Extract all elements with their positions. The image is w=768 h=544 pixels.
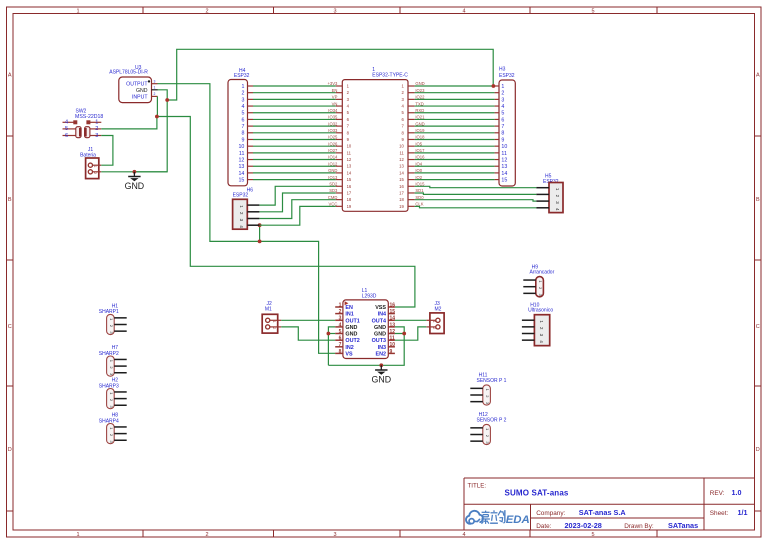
svg-text:CLK: CLK bbox=[415, 202, 423, 207]
svg-text:ASPL78L05-DI-R: ASPL78L05-DI-R bbox=[109, 70, 148, 76]
svg-text:H3: H3 bbox=[499, 67, 506, 73]
svg-text:Date:: Date: bbox=[536, 523, 551, 530]
svg-text:IN3: IN3 bbox=[378, 345, 386, 351]
junction U3 GND bbox=[165, 98, 169, 102]
svg-text:IO33: IO33 bbox=[328, 128, 338, 133]
svg-text:2: 2 bbox=[154, 92, 156, 96]
svg-text:GND: GND bbox=[125, 181, 145, 191]
svg-text:5: 5 bbox=[591, 532, 594, 538]
svg-text:EN2: EN2 bbox=[376, 351, 387, 357]
svg-text:ESP32: ESP32 bbox=[499, 73, 515, 79]
svg-text:A: A bbox=[8, 73, 12, 79]
svg-text:10: 10 bbox=[501, 144, 507, 150]
svg-text:5: 5 bbox=[339, 329, 342, 335]
svg-text:GND: GND bbox=[136, 88, 148, 94]
wire U3 INPUT down to junction bbox=[156, 96, 158, 116]
svg-text:1: 1 bbox=[432, 321, 436, 323]
svg-text:15: 15 bbox=[501, 177, 507, 183]
ground symbol under L293D bbox=[372, 365, 392, 384]
svg-text:IN2: IN2 bbox=[345, 345, 353, 351]
svg-text:14: 14 bbox=[399, 170, 404, 175]
svg-text:D: D bbox=[8, 447, 12, 453]
wire GND rail up over top to H3 pin1 bbox=[167, 49, 493, 100]
connector J3 M2 bbox=[426, 301, 444, 334]
svg-text:15: 15 bbox=[399, 177, 404, 182]
ground symbol near J1 bbox=[125, 172, 145, 191]
svg-text:1: 1 bbox=[76, 532, 79, 538]
junction right GND tie bbox=[402, 332, 406, 336]
svg-text:CMD: CMD bbox=[328, 195, 338, 200]
svg-text:EN: EN bbox=[332, 88, 338, 93]
svg-text:IO32: IO32 bbox=[328, 121, 338, 126]
svg-text:GND: GND bbox=[328, 168, 337, 173]
svg-text:1: 1 bbox=[241, 84, 244, 90]
svg-text:4: 4 bbox=[241, 104, 244, 110]
svg-text:18: 18 bbox=[347, 197, 352, 202]
svg-text:16: 16 bbox=[347, 184, 352, 189]
wire SW2 pin3 to J1 pin1 bbox=[101, 136, 113, 166]
svg-text:3: 3 bbox=[154, 79, 156, 83]
svg-text:OUT3: OUT3 bbox=[372, 338, 386, 344]
wire battery net: junction right, down and across to L293D VSS bbox=[157, 117, 415, 308]
svg-text:Ultrasonico: Ultrasonico bbox=[528, 308, 553, 314]
svg-text:15: 15 bbox=[390, 309, 396, 315]
svg-text:L293D: L293D bbox=[362, 294, 377, 300]
svg-text:12: 12 bbox=[390, 329, 396, 335]
svg-text:M1: M1 bbox=[265, 306, 272, 312]
svg-text:7: 7 bbox=[339, 342, 342, 348]
svg-text:EN: EN bbox=[345, 305, 353, 311]
wire H6 pin4 branch down to 5V net bbox=[259, 225, 261, 241]
svg-text:12: 12 bbox=[238, 157, 244, 163]
svg-text:IO27: IO27 bbox=[328, 148, 338, 153]
svg-text:13: 13 bbox=[399, 164, 404, 169]
svg-text:+3V3: +3V3 bbox=[327, 81, 338, 86]
svg-text:REV:: REV: bbox=[710, 490, 725, 497]
svg-text:1: 1 bbox=[339, 302, 342, 308]
junction 5V net tap bbox=[258, 240, 262, 244]
svg-text:5: 5 bbox=[241, 111, 244, 117]
wires ESP32 SD1/SD0/CLK + IO15 staircase to H5 bbox=[415, 186, 537, 187]
svg-text:2: 2 bbox=[93, 172, 97, 174]
svg-text:1.0: 1.0 bbox=[732, 488, 742, 497]
svg-text:M2: M2 bbox=[435, 306, 442, 312]
wire J3 pin2 to OUT3 bbox=[395, 327, 426, 340]
svg-text:3: 3 bbox=[501, 97, 504, 103]
svg-text:VSS: VSS bbox=[375, 305, 386, 311]
header H9 Arrancador bbox=[523, 264, 554, 297]
ESP32 module left pins 1-19 bbox=[327, 81, 351, 209]
wire J1 pin2 to GND net bbox=[101, 171, 167, 173]
header H11 SENSOR P 1 bbox=[470, 373, 506, 406]
svg-text:D: D bbox=[756, 447, 760, 453]
svg-text:4: 4 bbox=[501, 104, 504, 110]
svg-text:14: 14 bbox=[347, 170, 352, 175]
svg-text:2: 2 bbox=[95, 126, 98, 132]
junction H6 pin4 bbox=[258, 223, 262, 227]
svg-text:VN: VN bbox=[332, 101, 338, 106]
svg-text:13: 13 bbox=[347, 164, 352, 169]
wire GND junction down to J1/GND symbol bbox=[134, 100, 167, 172]
svg-text:13: 13 bbox=[501, 164, 507, 170]
svg-text:1/1: 1/1 bbox=[738, 508, 748, 517]
svg-text:IN4: IN4 bbox=[378, 312, 386, 318]
voltage regulator U3 ASPL78L05-DI-R bbox=[109, 65, 157, 103]
svg-text:12: 12 bbox=[399, 157, 404, 162]
header H1 SHARP1 bbox=[99, 304, 127, 335]
svg-text:GND: GND bbox=[374, 325, 386, 331]
svg-text:VP: VP bbox=[332, 95, 338, 100]
svg-text:14: 14 bbox=[390, 316, 396, 322]
svg-text:17: 17 bbox=[347, 190, 352, 195]
svg-text:9: 9 bbox=[241, 137, 244, 143]
svg-text:SD0: SD0 bbox=[415, 195, 424, 200]
svg-text:19: 19 bbox=[399, 204, 404, 209]
svg-text:SATanas: SATanas bbox=[668, 521, 698, 530]
svg-text:1: 1 bbox=[154, 85, 156, 89]
svg-text:5: 5 bbox=[501, 111, 504, 117]
svg-text:4: 4 bbox=[339, 322, 342, 328]
header H12 SENSOR P 2 bbox=[470, 412, 506, 445]
IC L1 L293D motor driver bbox=[343, 288, 388, 358]
svg-text:1: 1 bbox=[93, 165, 97, 167]
svg-text:16: 16 bbox=[390, 302, 396, 308]
svg-text:ESP32: ESP32 bbox=[233, 193, 249, 199]
svg-text:11: 11 bbox=[239, 151, 245, 157]
svg-text:6: 6 bbox=[501, 117, 504, 123]
wire H6 pin4 staircase to ESP32 VCC bbox=[260, 206, 336, 225]
svg-text:B: B bbox=[8, 197, 12, 203]
svg-text:11: 11 bbox=[399, 150, 404, 155]
connector J2 M1 bbox=[262, 301, 281, 333]
svg-text:Company:: Company: bbox=[536, 510, 565, 517]
svg-text:6: 6 bbox=[65, 133, 68, 139]
svg-text:IO35: IO35 bbox=[328, 115, 338, 120]
L293D left pins 1-8 bbox=[335, 302, 360, 357]
svg-text:10: 10 bbox=[347, 144, 352, 149]
wire U3 OUTPUT 5V net to L293D VS bbox=[158, 84, 336, 354]
svg-text:IO12: IO12 bbox=[328, 161, 338, 166]
svg-text:5: 5 bbox=[65, 126, 68, 132]
svg-text:10: 10 bbox=[399, 144, 404, 149]
header H7 SHARP2 bbox=[99, 345, 127, 376]
svg-text:14: 14 bbox=[238, 171, 244, 177]
svg-text:SENSOR P 1: SENSOR P 1 bbox=[477, 378, 507, 384]
junction H3 pin1 / GND rail bbox=[492, 84, 496, 88]
header H6 ESP32 (4-pin left) bbox=[233, 187, 260, 229]
svg-text:C: C bbox=[8, 324, 12, 330]
ESP32 module right pins 1-19 bbox=[399, 81, 425, 209]
svg-text:2: 2 bbox=[205, 532, 208, 538]
svg-text:A: A bbox=[756, 73, 760, 79]
svg-text:IO26: IO26 bbox=[328, 141, 338, 146]
junction GND symbol tap bbox=[133, 170, 137, 174]
svg-text:3: 3 bbox=[339, 316, 342, 322]
svg-text:OUT2: OUT2 bbox=[345, 338, 359, 344]
switch SW2 MSS-22D18 bbox=[63, 109, 104, 139]
svg-text:9: 9 bbox=[501, 137, 504, 143]
svg-text:2: 2 bbox=[432, 327, 436, 329]
svg-text:8: 8 bbox=[241, 131, 244, 137]
wire L293D right GND pin13 jog bbox=[395, 327, 404, 334]
svg-text:GND: GND bbox=[372, 375, 392, 385]
svg-text:1: 1 bbox=[272, 321, 276, 323]
svg-text:3: 3 bbox=[333, 8, 336, 14]
junction battery input bbox=[155, 115, 159, 119]
svg-text:4: 4 bbox=[462, 8, 465, 14]
wires ESP32 right pins 1-15 to H3 bbox=[415, 86, 495, 180]
svg-text:12: 12 bbox=[347, 157, 352, 162]
svg-text:OUT4: OUT4 bbox=[372, 318, 386, 324]
svg-text:15: 15 bbox=[238, 177, 244, 183]
svg-text:19: 19 bbox=[347, 204, 352, 209]
svg-text:Drawn By:: Drawn By: bbox=[624, 523, 654, 530]
svg-text:7: 7 bbox=[501, 124, 504, 130]
header H5 ESP32 (4-pin right) bbox=[536, 174, 563, 213]
wire J2 pin2 to OUT2 bbox=[281, 327, 335, 340]
svg-text:11: 11 bbox=[347, 150, 352, 155]
svg-text:3: 3 bbox=[333, 532, 336, 538]
svg-text:GND: GND bbox=[345, 332, 357, 338]
svg-text:13: 13 bbox=[238, 164, 244, 170]
svg-text:1: 1 bbox=[95, 119, 98, 125]
svg-text:INPUT: INPUT bbox=[132, 94, 148, 100]
connector J1 Bateria bbox=[80, 147, 101, 178]
svg-text:VCC: VCC bbox=[329, 202, 338, 207]
wire L293D left GND pins tied and to ground rail bbox=[328, 333, 335, 335]
svg-text:SAT-anas S.A: SAT-anas S.A bbox=[579, 508, 627, 517]
IC U1 ESP32-TYPE-C module bbox=[342, 67, 408, 211]
svg-text:2: 2 bbox=[241, 91, 244, 97]
wire SW2 pin2 to battery-input junction bbox=[101, 117, 157, 129]
svg-text:C: C bbox=[756, 324, 760, 330]
header H4 ESP32 (left 15-pin) bbox=[228, 68, 253, 186]
svg-text:OUTPUT: OUTPUT bbox=[126, 82, 148, 88]
svg-text:16: 16 bbox=[399, 184, 404, 189]
wires H4 pins to ESP32 module left pins bbox=[253, 86, 336, 180]
logo text 嘉立创EDA (stroke approximation) bbox=[481, 510, 529, 526]
svg-text:4: 4 bbox=[462, 532, 465, 538]
svg-text:IO14: IO14 bbox=[328, 155, 338, 160]
svg-text:8: 8 bbox=[339, 349, 342, 355]
svg-text:IO25: IO25 bbox=[328, 135, 338, 140]
svg-text:MSS-22D18: MSS-22D18 bbox=[75, 114, 103, 120]
svg-text:ESP32: ESP32 bbox=[234, 73, 250, 79]
svg-text:7: 7 bbox=[241, 124, 244, 130]
svg-text:OUT1: OUT1 bbox=[345, 318, 359, 324]
svg-text:B: B bbox=[756, 197, 760, 203]
svg-text:6: 6 bbox=[339, 336, 342, 342]
header H3 ESP32 (right 15-pin) bbox=[495, 67, 516, 187]
svg-text:1: 1 bbox=[76, 8, 79, 14]
logo JLC EDA cloud bbox=[466, 511, 483, 524]
svg-text:SUMO SAT-anas: SUMO SAT-anas bbox=[505, 488, 569, 497]
svg-text:GND: GND bbox=[345, 325, 357, 331]
svg-text:2: 2 bbox=[501, 91, 504, 97]
svg-text:Sheet:: Sheet: bbox=[710, 510, 729, 517]
svg-text:3: 3 bbox=[241, 97, 244, 103]
svg-text:9: 9 bbox=[390, 349, 393, 355]
svg-text:TITLE:: TITLE: bbox=[468, 482, 487, 489]
svg-text:11: 11 bbox=[390, 336, 396, 342]
svg-text:11: 11 bbox=[501, 151, 507, 157]
svg-text:2: 2 bbox=[205, 8, 208, 14]
svg-text:ESP32-TYPE-C: ESP32-TYPE-C bbox=[372, 73, 408, 79]
svg-text:IN1: IN1 bbox=[345, 312, 353, 318]
header H10 Ultrasonico bbox=[522, 302, 553, 345]
svg-text:EDA: EDA bbox=[506, 514, 530, 526]
svg-text:VS: VS bbox=[345, 351, 353, 357]
svg-text:10: 10 bbox=[390, 342, 396, 348]
svg-text:4: 4 bbox=[65, 119, 68, 125]
svg-text:13: 13 bbox=[390, 322, 396, 328]
header H2 SHARP3 bbox=[99, 378, 127, 409]
svg-text:IO13: IO13 bbox=[328, 175, 338, 180]
svg-text:15: 15 bbox=[347, 177, 352, 182]
svg-text:1: 1 bbox=[501, 84, 504, 90]
svg-text:12: 12 bbox=[501, 157, 507, 163]
wire J3 pin1 to OUT4 bbox=[395, 319, 426, 321]
svg-text:5: 5 bbox=[591, 8, 594, 14]
title block bbox=[464, 478, 755, 530]
svg-text:8: 8 bbox=[501, 131, 504, 137]
junction ground symbol tap bbox=[379, 363, 383, 367]
svg-text:SENSOR P 2: SENSOR P 2 bbox=[477, 417, 507, 423]
svg-text:Arrancador: Arrancador bbox=[530, 270, 555, 276]
wires H6 pins 1-3 staircase to ESP32 SD2/SD3/CMD bbox=[259, 186, 335, 205]
svg-text:2: 2 bbox=[272, 327, 276, 329]
svg-text:3: 3 bbox=[95, 133, 98, 139]
svg-text:2023-02-28: 2023-02-28 bbox=[565, 521, 602, 530]
svg-text:GND: GND bbox=[374, 332, 386, 338]
header H8 SHARP4 bbox=[99, 413, 127, 444]
wire ground rail under L293D bbox=[328, 334, 404, 366]
svg-text:2: 2 bbox=[339, 309, 342, 315]
svg-text:10: 10 bbox=[238, 144, 244, 150]
wire J2 pin1 to OUT1 bbox=[281, 319, 335, 321]
L293D right pins 16-9 bbox=[372, 302, 396, 357]
svg-text:6: 6 bbox=[241, 117, 244, 123]
svg-text:17: 17 bbox=[399, 190, 404, 195]
svg-text:IO34: IO34 bbox=[328, 108, 338, 113]
junction left GND tie bbox=[327, 332, 331, 336]
svg-text:18: 18 bbox=[399, 197, 404, 202]
wire U3 GND pin to junction 1 bbox=[158, 90, 168, 100]
svg-text:14: 14 bbox=[501, 171, 507, 177]
